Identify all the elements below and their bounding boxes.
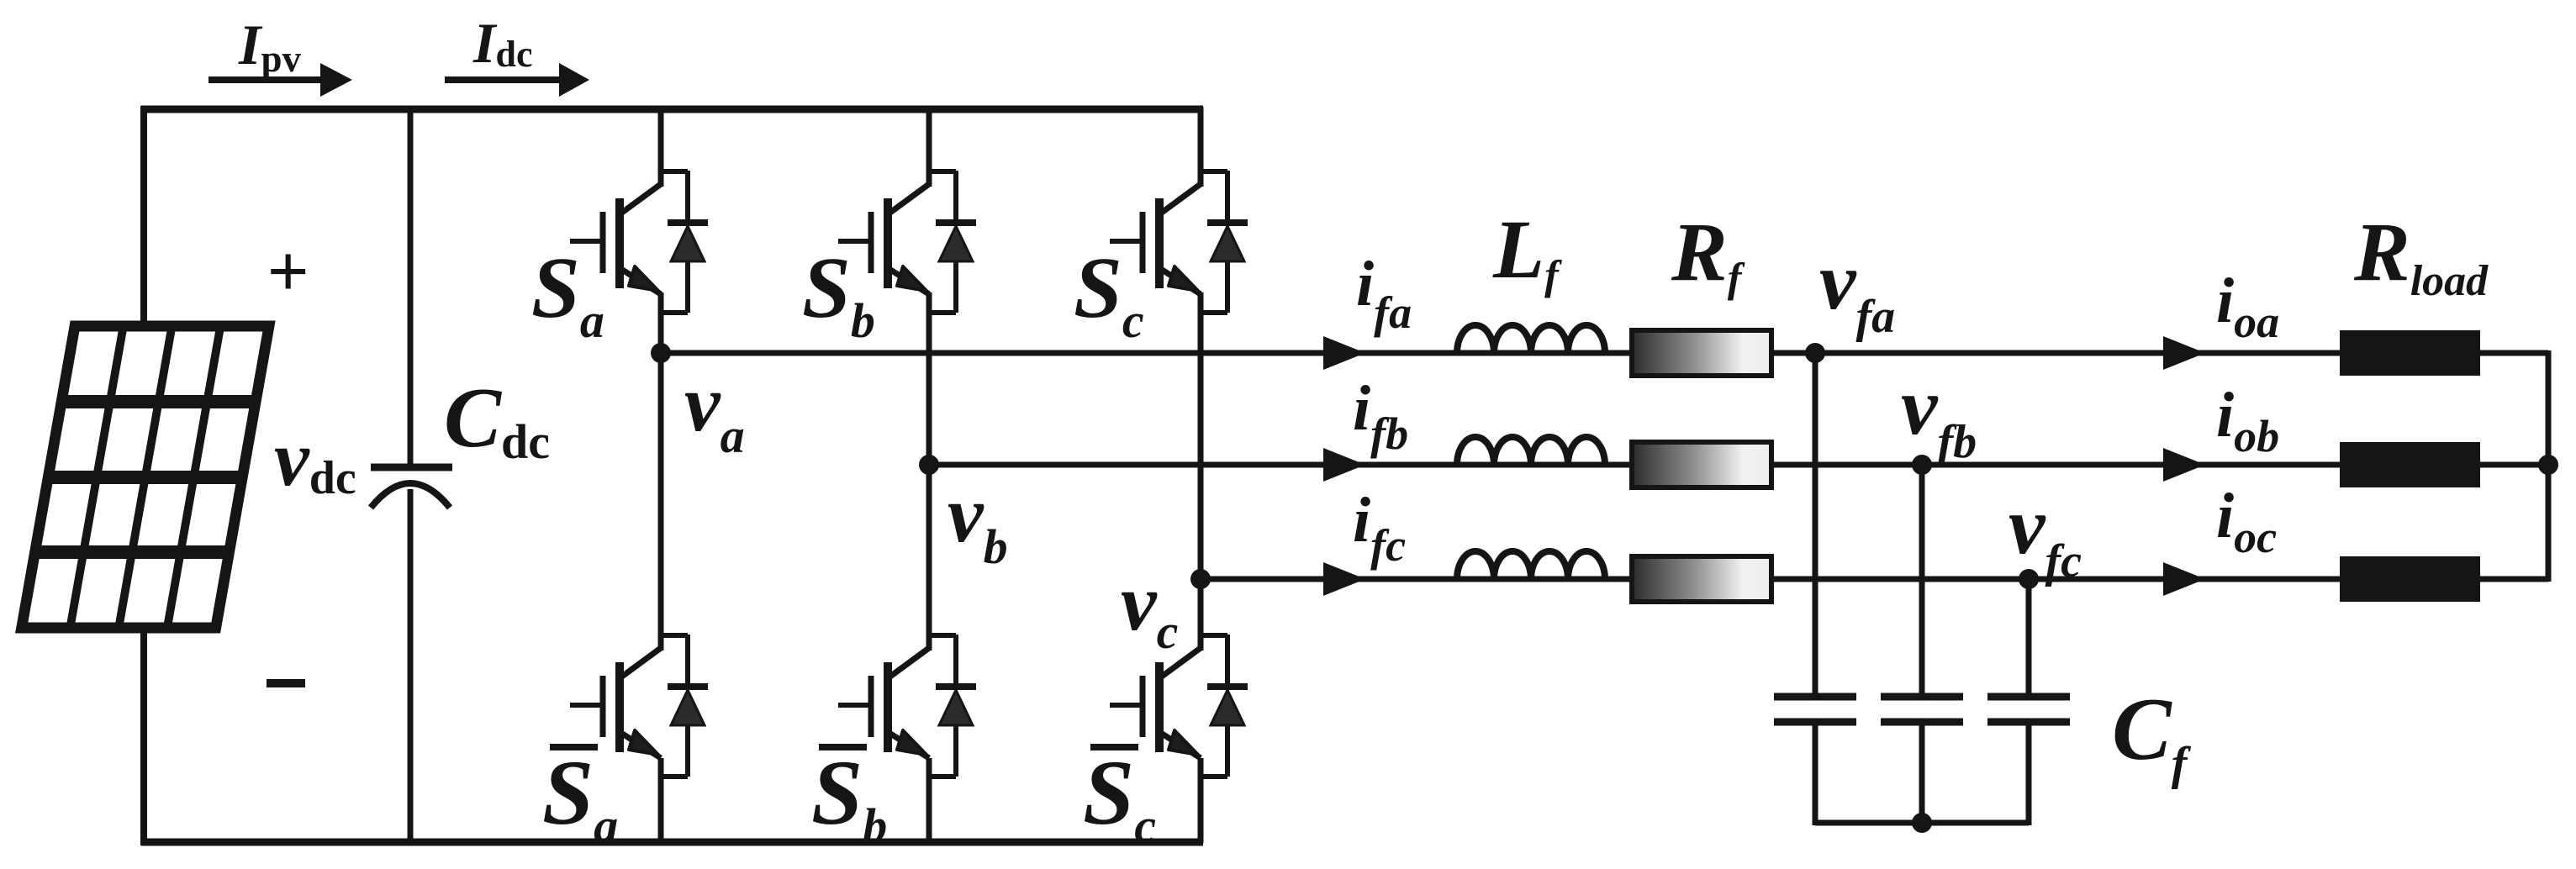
wire leg c from switch to node c [1198,292,1204,582]
node capacitor star junction dot [1912,813,1932,833]
wire leg a from node a to lower switch [658,353,664,650]
capacitor C_f phase b [1881,697,1963,722]
capacitor C_f phase a [1774,697,1856,722]
arrow I_pv [209,76,323,83]
wire leg b upper stub [926,107,932,187]
transistor S_c_bar (lower IGBT with antiparallel diode) [1110,635,1248,777]
inductor L_f phase a [1457,325,1605,353]
node v_fa junction dot [1805,343,1825,363]
wire capacitor a to star rail [1813,722,1819,825]
wire C_dc branch upper [408,107,414,464]
wire from node v_fa down to capacitor [1813,353,1819,697]
inductor L_f phase b [1457,437,1605,465]
arrow i_fa [1323,336,1365,370]
wire leg b from switch to node b [926,292,932,468]
node a junction dot [651,343,671,363]
capacitor C_f phase c [1987,697,2070,722]
arrow i_fb [1323,448,1365,482]
node v_fb junction dot [1912,455,1932,475]
wire from node v_fb down to capacitor [1919,465,1925,697]
wire phase c line [1201,577,2548,582]
resistor R_load phase b [2340,442,2480,487]
wire capacitor star bottom rail [1815,820,2029,826]
transistor S_b_bar (lower IGBT with antiparallel diode) [838,635,976,777]
node load rail junction dot [2538,455,2558,475]
transistor S_a_bar (lower IGBT with antiparallel diode) [570,635,708,777]
arrow i_oa [2163,336,2205,370]
resistor R_f phase c [1632,556,1771,602]
wire phase b line [929,462,2548,468]
wire leg a upper stub [658,107,664,187]
label - (minus) [267,679,305,687]
arrow I_dc [445,76,562,83]
wire bottom dc rail [141,839,1203,846]
wire leg a from switch to node a [658,292,664,356]
solar PV panel [22,326,269,628]
arrow i_ob [2163,448,2205,482]
wire top dc rail [141,106,1203,113]
wire phase a line [661,350,2548,356]
inductor L_f phase c [1457,551,1605,579]
node v_fc junction dot [2019,569,2039,589]
label S_b_bar [811,741,887,853]
wire from node v_fc down to capacitor [2026,579,2032,697]
arrow i_fc [1323,562,1365,596]
transistor S_c (IGBT with antiparallel diode) [1110,171,1248,313]
arrow i_oc [2163,562,2205,596]
node c junction dot [1190,569,1211,589]
label S_c_bar [1083,741,1156,853]
resistor R_f phase b [1632,442,1771,487]
wire C_dc branch lower [408,489,414,845]
node b junction dot [919,455,939,475]
transistor S_a (IGBT with antiparallel diode) [570,171,708,313]
wire leg c upper stub [1198,107,1204,187]
wire left vertical from PV panel to bottom rail [140,625,147,845]
resistor R_load phase a [2340,330,2480,376]
wire leg c lower to bottom rail [1198,758,1204,843]
resistor R_f phase a [1632,330,1771,376]
wire capacitor c to star rail [2026,722,2032,825]
svg-text:+: + [267,231,309,313]
wire leg b from node b to lower switch [926,465,932,650]
wire leg b lower to bottom rail [926,758,932,843]
wire leg c from node c to lower switch [1198,579,1204,650]
wire load right rail [2546,350,2552,582]
transistor S_b (IGBT with antiparallel diode) [838,171,976,313]
resistor R_load phase c [2340,556,2480,602]
wire capacitor b to star rail [1919,722,1925,825]
wire leg a lower to bottom rail [658,758,664,843]
label S_a_bar [542,741,618,853]
wire left vertical from top rail to PV panel [140,106,147,329]
capacitor C_dc [371,467,452,508]
